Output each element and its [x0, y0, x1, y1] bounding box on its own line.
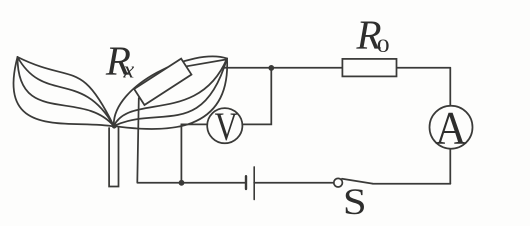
right leaf lower outline — [114, 59, 227, 130]
label S — [343, 182, 367, 222]
resistor Rx body — [134, 59, 191, 105]
top wire from leaf tip to right corner — [223, 67, 451, 69]
battery long plate — [253, 167, 255, 200]
stem — [109, 128, 118, 187]
voltmeter left wire — [181, 124, 207, 182]
plant base junction blob — [112, 124, 117, 129]
right leaf vein 2 — [114, 59, 227, 127]
svg-text:0: 0 — [377, 36, 390, 57]
svg-text:V: V — [215, 104, 238, 148]
switch lever — [342, 179, 373, 184]
svg-text:S: S — [343, 182, 367, 222]
svg-text:x: x — [123, 58, 135, 84]
wire from Rx lower end down — [137, 98, 139, 182]
left leaf vein 2 — [18, 57, 114, 126]
node junction dot bottom — [179, 180, 185, 186]
right leaf vein 3 — [114, 59, 227, 127]
left leaf lower outline — [14, 57, 114, 127]
battery short plate — [245, 176, 247, 189]
voltmeter right wire — [242, 68, 271, 125]
left leaf upper outline — [18, 57, 114, 126]
label V — [215, 104, 238, 148]
ammeter A circle — [430, 106, 473, 149]
voltmeter V circle — [207, 108, 242, 143]
wire battery to switch — [254, 182, 334, 184]
bottom right wire — [373, 183, 451, 185]
svg-text:A: A — [435, 102, 467, 154]
resistor R0 body — [342, 59, 396, 77]
bottom left wire — [137, 182, 246, 184]
switch pivot circle — [334, 178, 343, 187]
wire right side vertical — [449, 68, 451, 184]
label A — [435, 102, 467, 154]
left leaf vein 3 — [17, 57, 113, 126]
right leaf upper outline — [114, 56, 227, 126]
wire Rx right end to leaf tip — [187, 60, 227, 67]
node junction dot top — [268, 65, 274, 71]
